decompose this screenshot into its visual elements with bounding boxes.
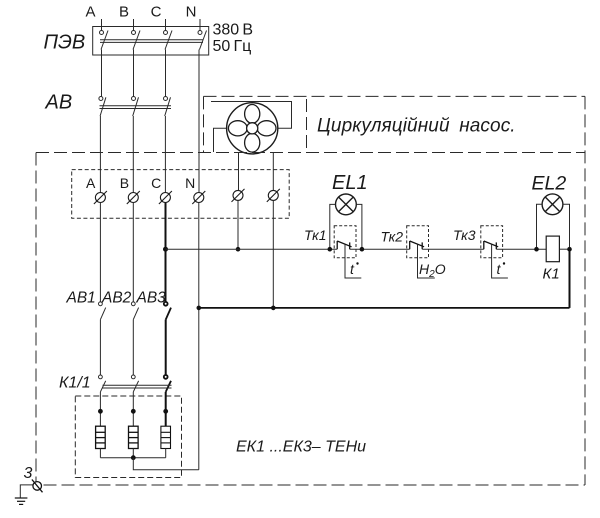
svg-text:А: А — [86, 175, 96, 191]
svg-text:50 Гц: 50 Гц — [213, 38, 252, 55]
lamp EL2 leads — [537, 204, 570, 249]
PEV pole 4 contact — [198, 31, 207, 50]
PEV pole 2 contact — [132, 31, 141, 50]
fan blade bottom — [245, 133, 260, 152]
pump motor wiring — [211, 102, 292, 153]
control wire — [166, 248, 570, 250]
PEV pole 3 contact — [164, 31, 173, 50]
svg-text:АВ3: АВ3 — [136, 290, 167, 307]
svg-text:3: 3 — [24, 465, 33, 482]
wire B PEV to AV — [133, 50, 135, 97]
ground symbol — [15, 498, 28, 504]
contactor K1/1 linkage — [103, 385, 172, 388]
node terminal6 bottom — [271, 306, 276, 311]
heater dashed box — [75, 396, 181, 478]
wire N PEV to terminal — [198, 50, 200, 193]
thermal switch Tk2 sensor link — [418, 245, 435, 279]
wire C terminal to AV3 bold — [165, 203, 167, 302]
heater EK3 — [161, 426, 171, 448]
lamp EL1 — [336, 194, 357, 215]
svg-text:N: N — [186, 4, 197, 21]
svg-text:ПЭВ: ПЭВ — [44, 32, 86, 54]
svg-text:АВ1: АВ1 — [66, 290, 96, 307]
terminal 6 — [267, 189, 280, 202]
lamp EL2 — [542, 194, 563, 215]
fan circle — [227, 103, 278, 154]
thermal switch Tk2 box — [407, 226, 429, 258]
thermal switch Tk1 contact — [337, 241, 351, 249]
wire N top — [199, 19, 201, 31]
wire common to N — [133, 458, 199, 470]
wire K1/1-2 to heater EK2 — [132, 392, 134, 426]
terminal A — [94, 191, 107, 204]
terminal 5 — [232, 189, 245, 202]
wire A PEV to AV — [101, 50, 103, 97]
node terminal5 control — [236, 247, 241, 252]
svg-text:EL1: EL1 — [332, 172, 368, 194]
thermal switch Tk1 box — [334, 226, 356, 258]
svg-text:Циркуляційний насос.: Циркуляційний насос. — [317, 116, 516, 137]
wire EK2 bottom — [132, 449, 134, 458]
switch PEV enclosure box — [93, 27, 209, 56]
heater EK1 — [96, 426, 106, 448]
wire terminal6 to bottom — [272, 200, 274, 308]
wire heater common — [100, 457, 165, 459]
wire B AV to terminal — [132, 116, 134, 193]
main dashed border — [36, 96, 585, 485]
wire terminal5 to control — [237, 200, 239, 249]
wire AV3 to K1/1 bold — [165, 320, 167, 375]
wire N terminal down — [198, 203, 200, 470]
svg-text:Тк2: Тк2 — [381, 229, 404, 245]
svg-text:ЕК1 ...ЕК3– ТЕНи: ЕК1 ...ЕК3– ТЕНи — [236, 439, 366, 456]
lamp EL1 leads — [330, 204, 362, 249]
node heater common — [131, 455, 136, 460]
pump wire 2 down — [272, 152, 274, 190]
svg-text:380 В: 380 В — [213, 22, 254, 39]
svg-text:Тк1: Тк1 — [304, 227, 326, 243]
wire phase A top — [101, 19, 103, 31]
node C control tap — [163, 247, 168, 252]
PEV mechanical linkage — [100, 40, 203, 43]
relay coil K1 — [546, 236, 559, 262]
breaker AV1 contact — [99, 302, 106, 320]
svg-text:К1/1: К1/1 — [59, 375, 91, 392]
svg-text:N: N — [185, 175, 195, 191]
ground wire — [20, 485, 33, 498]
thermal switch Tk3 sensor link — [492, 245, 508, 279]
node EL2 right — [567, 247, 572, 252]
PEV pole 1 contact — [100, 31, 109, 50]
wire C PEV to AV — [165, 50, 167, 97]
contactor K1/1 pole 2 — [131, 375, 138, 392]
terminal C — [159, 191, 172, 204]
wire phase B top — [133, 19, 135, 31]
svg-text:АВ: АВ — [45, 92, 73, 114]
wire C AV to terminal — [164, 116, 166, 193]
node EL1 left — [328, 247, 333, 252]
fan blade top — [245, 105, 260, 124]
thermal switch Tk1 sensor link — [345, 245, 361, 279]
terminal block dashed box — [72, 170, 290, 219]
breaker AV pole 3 — [164, 97, 171, 117]
svg-text:К1: К1 — [543, 266, 560, 283]
contactor K1/1 pole 1 — [99, 375, 106, 392]
thermal switch Tk3 box — [481, 226, 503, 258]
fan blade right — [257, 121, 276, 136]
pump enclosure dashed box — [204, 96, 307, 152]
ground terminal — [32, 480, 43, 493]
wire bottom return — [199, 307, 570, 309]
svg-text:Тк3: Тк3 — [453, 227, 476, 243]
breaker AV2 contact — [131, 302, 138, 320]
pump wire 1 down — [238, 152, 240, 190]
node EK1 top — [98, 409, 103, 414]
breaker AV pole 1 — [99, 97, 106, 117]
terminal B — [127, 191, 140, 204]
svg-text:В: В — [120, 175, 129, 191]
wire AV2 to K1/1 — [132, 320, 134, 375]
wire K1/1-3 to heater EK3 bold — [165, 392, 167, 426]
breaker AV pole 2 — [132, 97, 139, 117]
node EK2 top — [131, 409, 136, 414]
contactor K1/1 pole 3 bold — [164, 375, 171, 392]
fan hub — [247, 123, 258, 134]
svg-text:В: В — [119, 4, 129, 21]
heater EK2 — [129, 426, 139, 448]
node EL1 right — [360, 247, 365, 252]
wire A terminal to AV1 — [99, 203, 101, 302]
svg-text:АВ2: АВ2 — [101, 290, 132, 307]
node N bottom line — [197, 306, 202, 311]
wire K1 down bold — [569, 249, 571, 308]
fan blade left — [228, 121, 247, 136]
breaker AV linkage — [100, 106, 172, 109]
terminal N — [192, 191, 205, 204]
wire phase C top — [165, 19, 167, 31]
svg-text:С: С — [151, 4, 162, 21]
breaker AV3 contact bold — [164, 302, 171, 320]
node EL2 left — [534, 247, 539, 252]
svg-text:А: А — [85, 4, 95, 21]
wire EK3 bottom — [165, 449, 167, 458]
wire AV1 to K1/1 — [99, 320, 101, 375]
thermal switch Tk3 contact — [484, 241, 498, 249]
wire A AV to terminal — [99, 116, 101, 193]
svg-text:EL2: EL2 — [532, 173, 567, 195]
wire B terminal to AV2 — [132, 203, 134, 302]
node EK3 top — [163, 409, 168, 414]
wire K1/1-1 to heater EK1 — [99, 392, 101, 426]
wire EK1 bottom — [99, 449, 101, 458]
svg-text:С: С — [151, 175, 161, 191]
thermal switch Tk2 contact — [410, 241, 424, 249]
